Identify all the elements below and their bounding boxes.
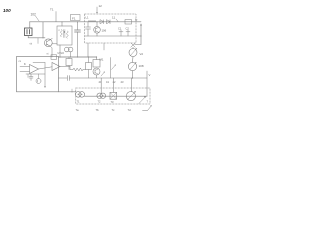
wire U1a in+ (20, 66, 30, 68)
svg-text:108: 108 (139, 64, 144, 68)
dashed load group box (76, 88, 150, 104)
svg-text:UVLO: UVLO (58, 52, 65, 55)
wire lamp to mid rail (132, 71, 134, 78)
interior rail (26, 73, 45, 75)
svg-text:100: 100 (3, 8, 11, 13)
wire U1c out (60, 66, 70, 68)
lamp circle LP2 (128, 62, 136, 70)
wire x88 lower (88, 70, 90, 79)
reference leader arrow (143, 106, 152, 110)
wire R2 stub top (68, 57, 70, 59)
wire C1 lower (77, 32, 79, 57)
stub below input wire (37, 38, 39, 44)
capacitor C2 drop (87, 22, 89, 27)
meter arrow (128, 92, 135, 99)
component box R4 (86, 63, 92, 70)
wire C2 lower (87, 29, 89, 36)
transformer core (64, 30, 65, 38)
controller box U1 (17, 57, 59, 92)
optocoupler circle a (65, 47, 70, 52)
svg-text:11: 11 (112, 16, 115, 20)
dashed converter box (85, 14, 137, 43)
junction n3 (77, 21, 78, 22)
svg-text:Vd: Vd (140, 52, 144, 56)
transistor Q2 (96, 22, 98, 27)
wire drop x43 (42, 22, 44, 38)
drop to meter (131, 78, 133, 92)
leader line for 102 (36, 16, 40, 21)
mid rail right (70, 77, 148, 79)
mid bus (85, 35, 141, 37)
wire out drop (69, 67, 71, 70)
resistor R3 (73, 68, 83, 71)
stub x28 (27, 74, 29, 78)
source BT1 inner bars (27, 30, 30, 35)
CT pair2 dots (99, 95, 100, 96)
transistor Q3 (38, 74, 40, 79)
junction n1 (42, 37, 43, 38)
junction n9 (59, 56, 60, 57)
inductor L1 (88, 21, 96, 22)
capacitor C1 (75, 30, 81, 32)
load box LB1 (110, 92, 117, 99)
svg-text:L1: L1 (86, 16, 90, 20)
op-amp U1a (30, 65, 39, 74)
source BT1 (25, 28, 33, 36)
junction n8 (88, 56, 89, 57)
arrowhead feedback (44, 86, 46, 88)
wire Q1 emitter (50, 46, 52, 57)
capacitor C2 (86, 27, 91, 29)
adjust arrow (139, 97, 145, 103)
junction n7 (71, 91, 72, 92)
svg-text:F1: F1 (72, 17, 76, 21)
rail top extension (59, 56, 97, 58)
wire R2 drop (68, 66, 70, 70)
transistor circle Q4 (93, 68, 100, 75)
wire input drop (29, 22, 31, 28)
sense chain drop (96, 57, 98, 60)
drop right x147 (146, 71, 148, 96)
wire box bottom extension (59, 91, 77, 93)
node stub T (55, 12, 57, 22)
wire Q4 to mid rail (96, 75, 98, 78)
svg-text:102: 102 (31, 13, 37, 17)
CT pair1 dots (78, 94, 79, 95)
component box SB1 (93, 60, 100, 68)
CT pair1 circle a (75, 92, 81, 98)
drop to load box (112, 78, 114, 92)
transistor Q1 (44, 39, 52, 47)
block on rail (51, 55, 57, 60)
wire U1a out (39, 67, 53, 69)
lamp X symbol (131, 43, 135, 47)
optocoupler circle b (68, 47, 73, 52)
arrow pointer to dashed box (96, 7, 98, 13)
CT pair2 circle b (100, 93, 105, 98)
lamp circle LP1 (129, 49, 137, 57)
component box R2 (66, 59, 72, 66)
wire Q2 lower (96, 33, 98, 36)
wire resistor left (70, 69, 73, 71)
wire Q1 to transformer (52, 43, 57, 45)
junction n4 (96, 21, 97, 22)
wire U1a in- (20, 71, 30, 73)
svg-text:7a: 7a (76, 108, 80, 112)
wire feedback (33, 62, 45, 64)
diode D2 (107, 20, 111, 24)
junction n5 (140, 35, 141, 36)
junction n11 (77, 56, 78, 57)
wire dashed-box drop x104 (103, 43, 105, 50)
capacitor C5 (29, 74, 33, 81)
svg-text:M1: M1 (100, 58, 104, 62)
wire feedback drop (44, 63, 46, 87)
mid rail left (59, 77, 67, 79)
series capacitor C6 (68, 76, 70, 81)
transformer box T1 (57, 26, 72, 45)
svg-text:T1: T1 (50, 8, 54, 12)
junction n12 (132, 77, 133, 78)
CT pair1 circle b (79, 92, 85, 98)
wire X to LP1 (132, 47, 134, 48)
fuse box F1 (71, 15, 81, 21)
arrow small A2 (101, 72, 105, 76)
lamp LP1 arrow (131, 49, 137, 56)
svg-text:7d: 7d (128, 108, 132, 112)
svg-text:V: V (149, 73, 151, 77)
output arrow Io (140, 25, 142, 45)
transformer secondary winding (66, 31, 68, 38)
junction n6 (96, 56, 97, 57)
junction n10 (70, 56, 71, 57)
junction n2 (61, 21, 62, 22)
wire Q1 collector (50, 38, 52, 39)
meter circle M2 (126, 92, 135, 101)
svg-text:106: 106 (102, 29, 107, 33)
wire to lamp chain (135, 44, 142, 46)
svg-text:7b: 7b (96, 108, 100, 112)
svg-text:st: st (47, 53, 49, 56)
leader 110 (116, 19, 118, 21)
diode D1 (100, 20, 104, 24)
drop to CT pair2 (100, 78, 102, 93)
CT pair2 circle a (97, 93, 102, 98)
svg-text:C2: C2 (126, 27, 130, 31)
capacitor C1 drop (77, 22, 79, 30)
svg-text:12: 12 (99, 4, 103, 8)
wire dashed-box drop x88 (87, 43, 89, 57)
lamp LP2 arrow (130, 63, 136, 70)
resistor R1 box (125, 20, 132, 24)
arrow small A1 (112, 65, 116, 70)
svg-text:C1: C1 (118, 27, 122, 31)
transformer polarity dot (64, 31, 65, 32)
wire transformer top feed (61, 22, 63, 26)
bottom bus (84, 95, 147, 97)
wire opto drop (70, 52, 72, 57)
wire between lamps (132, 57, 135, 63)
wire top bus (30, 21, 142, 23)
wire from source (28, 36, 45, 38)
op-amp U1c (52, 63, 60, 71)
capacitor C3 (119, 30, 123, 36)
capacitor C4 (126, 30, 130, 36)
wire resistor right (83, 69, 86, 71)
tick x72 (71, 89, 73, 92)
wire transformer bottom left (59, 45, 61, 57)
load box X (110, 92, 117, 99)
transformer primary winding (60, 30, 62, 37)
wire sense x110 (110, 58, 112, 79)
wire x88 upper (88, 57, 90, 63)
